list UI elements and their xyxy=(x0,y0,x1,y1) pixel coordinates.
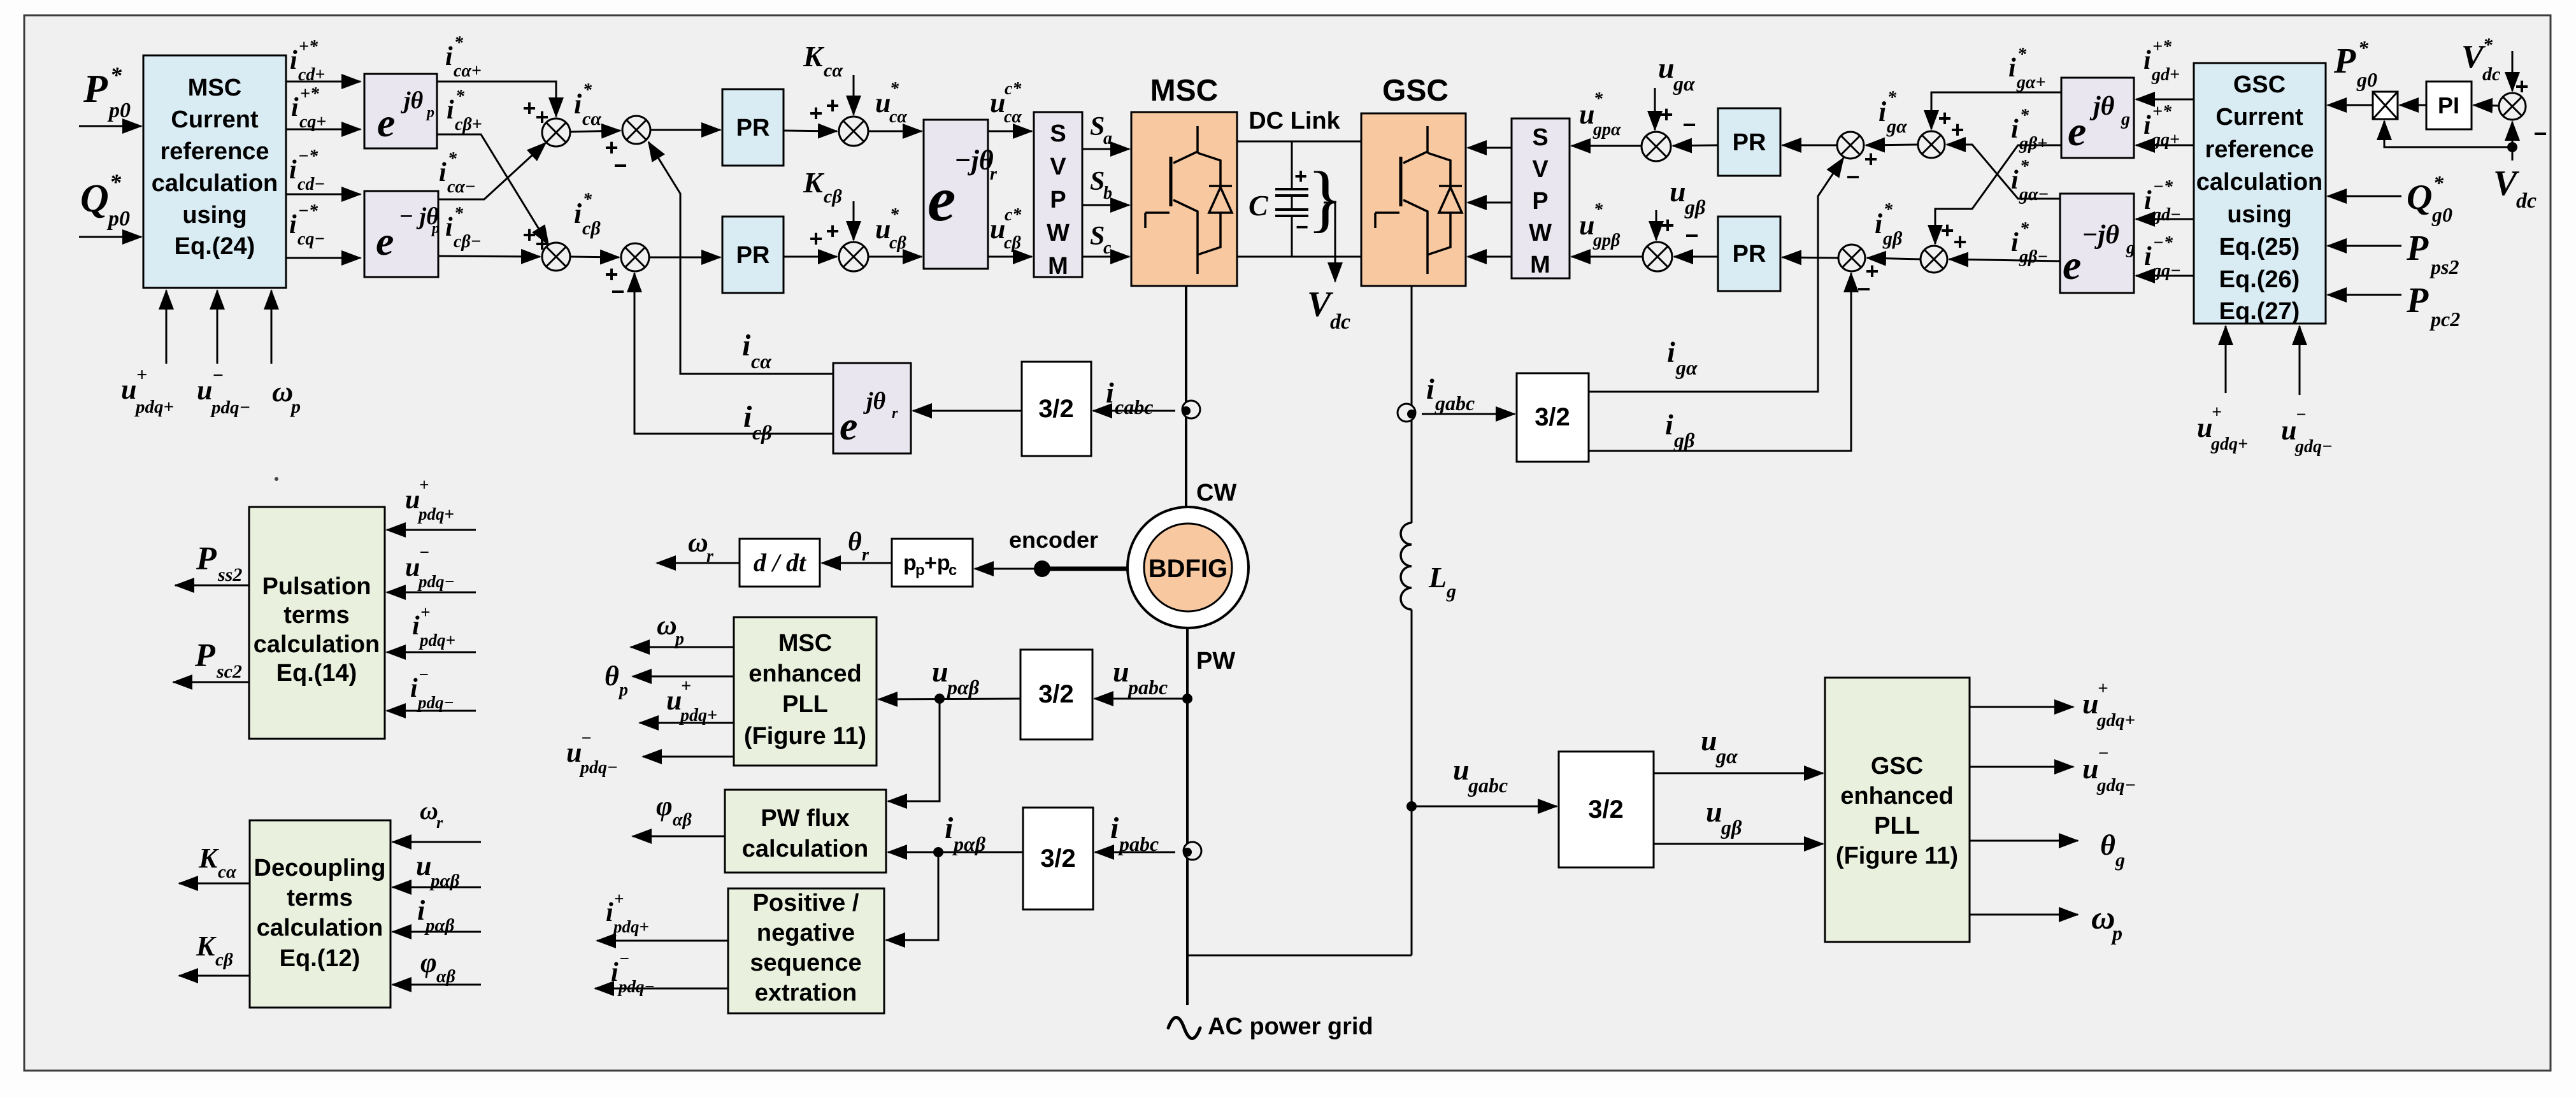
label u_ga 3/2 out xyxy=(1701,724,1738,767)
svg-text:cα−: cα− xyxy=(447,177,476,197)
wire S_b gate MSC xyxy=(1082,204,1129,206)
label e^-jtheta_p xyxy=(376,203,440,264)
wire i_gb+ cross to S8b xyxy=(1935,145,2061,244)
wire Q_g0 input xyxy=(2328,196,2401,197)
svg-text:gα: gα xyxy=(1675,356,1698,379)
svg-text:calculation: calculation xyxy=(152,170,278,197)
wire u_gdq- up input xyxy=(2299,326,2301,395)
svg-text:gβ: gβ xyxy=(1673,429,1695,452)
summing junction S2 i_cb xyxy=(542,243,570,271)
label i_gd+ ref xyxy=(2143,37,2180,85)
label i_gb ref xyxy=(1875,200,1903,249)
svg-text:+: + xyxy=(1940,217,1954,243)
wire u_pdq- up input xyxy=(217,290,218,364)
svg-text:+: + xyxy=(809,100,822,126)
svg-text:i: i xyxy=(743,400,752,434)
wire i_pab to sequence extration xyxy=(886,852,938,940)
label i_cd- ref xyxy=(289,146,325,194)
wire PR3 to S10a xyxy=(1673,145,1718,146)
svg-text:i: i xyxy=(2143,111,2151,140)
wire u_pab to flux calc xyxy=(888,699,940,801)
svg-text:*: * xyxy=(2358,36,2369,59)
svg-text:}: } xyxy=(1307,156,1343,239)
svg-text:Q: Q xyxy=(2407,178,2432,217)
svg-text:+p: +p xyxy=(924,551,950,575)
svg-text:+: + xyxy=(535,104,548,130)
label i_pdq- out xyxy=(611,949,655,996)
label u_pdq+ PLL out xyxy=(666,676,717,725)
wire i_gq+ ref xyxy=(2136,145,2194,146)
label e^-jtheta_r xyxy=(927,145,998,234)
svg-text:b: b xyxy=(1103,183,1112,203)
wire P_ss2 out xyxy=(175,585,249,587)
svg-text:*: * xyxy=(1594,200,1603,220)
svg-text:pdq+: pdq+ xyxy=(419,631,455,650)
svg-text:r: r xyxy=(706,546,714,566)
svg-text:CW: CW xyxy=(1196,480,1236,506)
svg-text:cβ−: cβ− xyxy=(454,232,482,252)
block GSC enhanced PLL xyxy=(1825,678,1970,942)
svg-text:*: * xyxy=(583,80,592,100)
svg-text:i: i xyxy=(445,213,453,242)
svg-text:AC power grid: AC power grid xyxy=(1208,1013,1373,1040)
wire P_p0 input xyxy=(79,125,141,127)
wire u_pdq- pulsation in xyxy=(387,592,476,594)
svg-text:reference: reference xyxy=(2205,136,2314,163)
svg-text:ss2: ss2 xyxy=(217,564,242,585)
svg-text:M: M xyxy=(1048,253,1068,280)
label i_gb 3/2 out xyxy=(1665,408,1695,452)
wire omega_p PLL out xyxy=(1970,914,2078,916)
label S_a MSC xyxy=(1090,112,1112,148)
label u_pdq- pulsation xyxy=(405,543,455,591)
svg-text:gd+: gd+ xyxy=(2151,65,2180,85)
svg-text:θ: θ xyxy=(605,660,619,692)
svg-text:cq+: cq+ xyxy=(299,112,326,132)
svg-text:i: i xyxy=(574,89,582,120)
wire i_pdq- pulsation in xyxy=(387,710,476,712)
svg-text:cα: cα xyxy=(751,350,772,373)
svg-text:cα: cα xyxy=(218,862,237,882)
svg-text:PI: PI xyxy=(2438,92,2459,118)
svg-text:u: u xyxy=(1453,753,1470,786)
wire S1 to S3 xyxy=(570,131,620,132)
svg-text:*: * xyxy=(1594,89,1603,109)
svg-text:*: * xyxy=(583,190,592,210)
block e^jtheta_r feedback xyxy=(833,363,911,453)
svg-text:cα+: cα+ xyxy=(454,61,482,81)
label i_ga 3/2 out xyxy=(1667,336,1698,379)
summing junction S9 Vdc error xyxy=(2499,93,2526,120)
svg-text:calculation: calculation xyxy=(257,915,383,941)
svg-text:+: + xyxy=(826,218,839,244)
svg-text:c*: c* xyxy=(1005,79,1022,99)
svg-text:*: * xyxy=(890,79,899,99)
svg-text:+: + xyxy=(2515,73,2528,99)
svg-text:*: * xyxy=(454,204,464,224)
block d/dt xyxy=(740,539,820,587)
svg-text:cβ: cβ xyxy=(889,233,906,253)
sensor i_pabc xyxy=(1184,842,1201,860)
wire u_pdq- out xyxy=(643,756,734,758)
svg-text:p: p xyxy=(431,220,440,237)
label P_ss2 xyxy=(196,541,242,585)
svg-text:+*: +* xyxy=(2152,102,2172,122)
svg-text:dc: dc xyxy=(2482,64,2500,85)
svg-text:gβ: gβ xyxy=(1882,228,1903,249)
label i_ca+ xyxy=(445,33,482,81)
svg-text:p: p xyxy=(618,680,628,700)
svg-text:K: K xyxy=(803,166,825,199)
svg-text:Eq.(26): Eq.(26) xyxy=(2219,266,2300,293)
svg-text:u: u xyxy=(416,850,431,881)
label i_cb ref xyxy=(574,190,601,239)
label theta_r xyxy=(848,527,869,565)
label u_ca ref xyxy=(875,79,907,127)
svg-text:terms: terms xyxy=(283,602,350,629)
svg-text:ω: ω xyxy=(420,796,438,825)
svg-text:+: + xyxy=(419,475,429,494)
svg-text:p: p xyxy=(674,629,684,649)
wire S5 to e^-jtheta_r xyxy=(868,131,922,132)
summing junction S7a i_ga error xyxy=(1837,132,1864,159)
label theta_p PLL out xyxy=(605,660,628,700)
svg-text:u: u xyxy=(875,87,891,118)
wire K_ca out xyxy=(179,883,250,885)
svg-text:Eq.(14): Eq.(14) xyxy=(276,660,357,687)
label i_cq+ ref xyxy=(291,84,326,132)
svg-text:*: * xyxy=(890,205,899,225)
svg-text:+*: +* xyxy=(299,37,318,57)
wire P_sc2 out xyxy=(173,681,249,683)
svg-text:K: K xyxy=(196,930,217,962)
label V_dc fb xyxy=(2493,164,2537,213)
svg-text:ω: ω xyxy=(657,610,677,641)
block 3/2 converter current xyxy=(1022,362,1091,456)
label V_dc ref xyxy=(2461,34,2500,85)
svg-text:u: u xyxy=(1658,52,1675,84)
svg-text:S: S xyxy=(1090,167,1105,196)
svg-text:−jθ: −jθ xyxy=(954,145,994,176)
svg-text:Pulsation: Pulsation xyxy=(262,573,371,600)
svg-text:φ: φ xyxy=(656,790,673,822)
label i_pab decoupling xyxy=(417,895,455,936)
label theta_g PLL out xyxy=(2100,829,2125,871)
wire S_c gate GSC xyxy=(1468,256,1512,258)
svg-text:C: C xyxy=(1249,189,1269,222)
svg-text:S: S xyxy=(1090,222,1105,251)
block MSC enhanced PLL xyxy=(734,617,877,766)
sensor i_gabc xyxy=(1398,404,1415,422)
block PI xyxy=(2426,82,2472,129)
label i_cq- ref xyxy=(289,201,325,249)
MSC converter IGBT icon xyxy=(1145,126,1232,274)
wire S3 to PR1 xyxy=(650,129,720,131)
svg-text:cd−: cd− xyxy=(297,175,325,194)
label u_pdq+ in xyxy=(121,364,174,417)
svg-text:p: p xyxy=(903,551,917,575)
svg-text:+*: +* xyxy=(300,84,320,104)
wire S_a gate GSC xyxy=(1468,147,1512,149)
svg-text:*: * xyxy=(455,87,465,106)
svg-text:*: * xyxy=(1884,200,1893,220)
svg-text:PR: PR xyxy=(1733,241,1766,267)
wire u_ga injection xyxy=(1654,88,1656,130)
svg-text:Positive /: Positive / xyxy=(753,890,859,916)
svg-text:−*: −* xyxy=(2153,177,2173,197)
svg-text:P: P xyxy=(194,638,216,674)
wire u_gdq+ PLL out xyxy=(1970,706,2073,708)
svg-text:(Figure 11): (Figure 11) xyxy=(1836,843,1958,869)
wire S4 to PR2 xyxy=(649,257,720,259)
wire P_pc2 input xyxy=(2328,294,2401,296)
svg-text:g0: g0 xyxy=(2356,68,2377,91)
label i_ga+ ref xyxy=(2008,45,2045,92)
svg-text:terms: terms xyxy=(287,885,353,911)
svg-text:3/2: 3/2 xyxy=(1038,395,1074,423)
svg-text:−: − xyxy=(212,365,224,386)
svg-text:u: u xyxy=(566,737,582,768)
svg-text:gdq−: gdq− xyxy=(2096,775,2136,795)
svg-text:pdq−: pdq− xyxy=(417,572,455,591)
svg-text:p: p xyxy=(2110,922,2122,945)
label u_pdq+ pulsation xyxy=(405,475,454,524)
label u_gdq+ PLL out xyxy=(2082,678,2135,731)
svg-text:cq−: cq− xyxy=(297,229,325,249)
block 3/2 grid current xyxy=(1517,373,1589,462)
svg-text:S: S xyxy=(1532,124,1548,151)
svg-text:c: c xyxy=(1103,238,1112,258)
svg-text:enhanced: enhanced xyxy=(748,660,861,687)
svg-text:+: + xyxy=(681,676,691,696)
svg-text:+: + xyxy=(535,231,548,257)
block MSC current reference Eq.(24) xyxy=(143,55,286,288)
wire V_dc measurement xyxy=(1324,203,1335,282)
label P_sc2 xyxy=(194,638,242,682)
svg-text:u: u xyxy=(1579,210,1594,241)
svg-text:cβ: cβ xyxy=(215,950,233,970)
svg-text:e: e xyxy=(2063,242,2081,289)
svg-text:+: + xyxy=(1661,212,1674,238)
wire PR2 to S6 xyxy=(784,256,837,258)
svg-text:encoder: encoder xyxy=(1009,527,1098,553)
node V_dc feedback xyxy=(2507,142,2517,152)
svg-text:gpα: gpα xyxy=(1592,120,1621,139)
svg-text:i: i xyxy=(945,811,954,845)
summing junction S8b i_gb ref xyxy=(1921,246,1947,273)
wire i_gd- ref xyxy=(2136,218,2194,220)
svg-text:g: g xyxy=(1446,581,1456,602)
block PR 2 xyxy=(722,217,784,293)
svg-text:jθ: jθ xyxy=(863,388,886,415)
svg-text:PR: PR xyxy=(1733,129,1766,156)
svg-text:ps2: ps2 xyxy=(2429,255,2459,278)
svg-text:−: − xyxy=(2533,120,2547,146)
summing junction S8a i_ga ref xyxy=(1918,131,1945,158)
svg-text:W: W xyxy=(1047,220,1070,246)
svg-text:pdq−: pdq− xyxy=(617,977,655,996)
svg-text:pdq−: pdq− xyxy=(579,758,618,778)
wire u_gdq+ up input xyxy=(2225,326,2227,393)
svg-text:+: + xyxy=(1294,164,1307,189)
svg-text:p0: p0 xyxy=(107,99,131,122)
wire i_cb feedback xyxy=(634,273,833,434)
svg-text:gdq−: gdq− xyxy=(2294,437,2333,457)
wire PR1 to S5 xyxy=(784,131,837,131)
svg-text:i: i xyxy=(606,898,613,927)
block positive negative sequence extration xyxy=(728,888,884,1013)
svg-text:V: V xyxy=(1532,156,1549,183)
block 3/2 grid voltage xyxy=(1559,752,1654,867)
node i_pab xyxy=(933,847,943,857)
svg-text:i: i xyxy=(2011,228,2019,257)
label u_gb 3/2 out xyxy=(1706,795,1742,839)
svg-text:u: u xyxy=(2197,412,2212,443)
svg-text:+: + xyxy=(1950,117,1964,143)
label u_gpa ref xyxy=(1579,89,1621,139)
block PR 3 xyxy=(1718,108,1780,176)
wire u_pab to PLL xyxy=(878,699,1020,699)
encoder dot xyxy=(1034,560,1050,577)
svg-text:−: − xyxy=(613,152,627,178)
svg-text:αβ: αβ xyxy=(673,810,692,830)
svg-text:W: W xyxy=(1529,220,1552,246)
svg-text:i: i xyxy=(289,155,297,185)
svg-text:r: r xyxy=(990,164,998,184)
wire theta_g PLL out xyxy=(1970,840,2078,842)
svg-text:jθ: jθ xyxy=(2089,92,2115,121)
svg-text:pdq−: pdq− xyxy=(210,397,250,418)
label u_ga injection xyxy=(1658,52,1696,95)
svg-text:θ: θ xyxy=(848,527,862,557)
label i_ga ref xyxy=(1878,88,1907,137)
wire i_ga+ to S8a xyxy=(1931,92,2061,129)
svg-text:g: g xyxy=(2115,850,2125,871)
label i_pabc xyxy=(1110,811,1159,855)
svg-text:u: u xyxy=(1670,175,1686,208)
wire encoder to pp+pc xyxy=(975,568,1042,570)
svg-text:pdq−: pdq− xyxy=(417,693,454,712)
wire K_ca injection xyxy=(853,75,855,115)
wire i_gabc to 3/2 xyxy=(1422,413,1515,415)
svg-text:−: − xyxy=(1682,111,1696,138)
wire i_ga- cross to S8a xyxy=(1947,145,2060,199)
svg-text:P: P xyxy=(2406,229,2429,268)
label i_ca feedback xyxy=(742,329,772,373)
wire u_ca to SVPWM xyxy=(988,131,1032,132)
wire S8a to S7a xyxy=(1866,145,1918,145)
capacitor C plates xyxy=(1275,189,1308,216)
svg-text:(Figure 11): (Figure 11) xyxy=(744,723,866,750)
svg-text:u: u xyxy=(197,374,212,406)
svg-text:i: i xyxy=(417,895,426,926)
svg-text:DC Link: DC Link xyxy=(1249,108,1340,134)
svg-text:cα: cα xyxy=(582,108,601,129)
label K_ca out xyxy=(198,843,237,882)
svg-text:p0: p0 xyxy=(106,207,130,231)
label K_ca xyxy=(803,40,843,81)
svg-text:sc2: sc2 xyxy=(216,661,242,682)
wire u_pdq+ pulsation in xyxy=(387,529,476,531)
svg-text:*: * xyxy=(448,149,457,169)
svg-text:S: S xyxy=(1050,120,1066,147)
svg-text:*: * xyxy=(110,62,122,88)
svg-text:d / dt: d / dt xyxy=(754,548,807,577)
svg-text:i: i xyxy=(2144,186,2152,215)
svg-text:*: * xyxy=(2020,157,2029,176)
label u_gdq- PLL out xyxy=(2082,743,2136,795)
label e^jtheta_r xyxy=(840,388,898,448)
block pp+pc xyxy=(892,539,973,587)
wire i_cabc sensor to 3/2 xyxy=(1093,410,1175,412)
svg-text:i: i xyxy=(439,158,447,187)
wire 3/2 to e^jtheta_r xyxy=(913,410,1022,412)
svg-text:cα: cα xyxy=(889,107,907,127)
summing junction S4 i_cb error xyxy=(621,243,649,271)
wire i_gb- to S8b xyxy=(1949,259,2060,261)
svg-text:−: − xyxy=(2296,405,2307,425)
label omega_r xyxy=(688,527,714,566)
svg-text:g: g xyxy=(2121,110,2130,129)
wire i_cq+ ref xyxy=(286,129,361,131)
wire i_pab to flux calc xyxy=(888,852,1023,853)
wire DC link capacitor leads xyxy=(1291,141,1293,189)
summing junction S10a u_ga xyxy=(1642,132,1671,161)
svg-text:gabc: gabc xyxy=(1435,392,1475,415)
BDFIG machine xyxy=(1127,507,1249,628)
wire i_cd- ref xyxy=(286,194,361,196)
wire MSC to CW xyxy=(1185,286,1187,507)
block e^-jtheta_g xyxy=(2060,194,2134,293)
wire PR4 to S10b xyxy=(1674,256,1718,258)
svg-text:cβ: cβ xyxy=(1004,233,1021,253)
svg-text:−: − xyxy=(611,278,624,304)
wire u_gb injection xyxy=(1656,210,1657,240)
svg-text:MSC: MSC xyxy=(1150,74,1219,108)
svg-text:−*: −* xyxy=(2153,233,2173,253)
svg-text:+: + xyxy=(2098,678,2108,699)
svg-text:pαβ: pαβ xyxy=(945,676,980,699)
svg-text:u: u xyxy=(2082,752,2099,785)
svg-text:dc: dc xyxy=(2516,189,2537,213)
svg-text:negative: negative xyxy=(757,920,855,946)
label i_cb- xyxy=(445,204,482,252)
label u_gb injection xyxy=(1670,175,1706,218)
svg-text:Current: Current xyxy=(2215,104,2303,131)
svg-text:i: i xyxy=(2008,53,2016,83)
label P_ps2 in xyxy=(2406,229,2459,278)
svg-text:+: + xyxy=(1953,229,1966,255)
wire i_pab decoupling in xyxy=(392,931,481,933)
wire S7a to PR3 xyxy=(1782,145,1837,146)
svg-text:Q: Q xyxy=(80,177,109,220)
svg-text:pαβ: pαβ xyxy=(429,871,460,891)
svg-text:S: S xyxy=(1090,112,1105,141)
summing junction S7b i_gb error xyxy=(1838,245,1865,271)
svg-text:cα: cα xyxy=(1004,107,1022,127)
wire GSC leg lower xyxy=(1411,610,1413,955)
svg-text:Eq.(24): Eq.(24) xyxy=(175,233,255,260)
svg-text:P: P xyxy=(1050,187,1066,213)
label P_p0 ref xyxy=(83,62,131,122)
svg-text:u: u xyxy=(932,655,948,688)
label u_pdq- in xyxy=(197,365,250,418)
svg-text:MSC: MSC xyxy=(778,630,832,657)
wire u_gabc to 3/2 xyxy=(1412,806,1557,808)
svg-text:cβ+: cβ+ xyxy=(455,115,482,134)
block SVPWM 1 xyxy=(1034,112,1082,277)
wire S8b to S7b xyxy=(1867,258,1921,259)
